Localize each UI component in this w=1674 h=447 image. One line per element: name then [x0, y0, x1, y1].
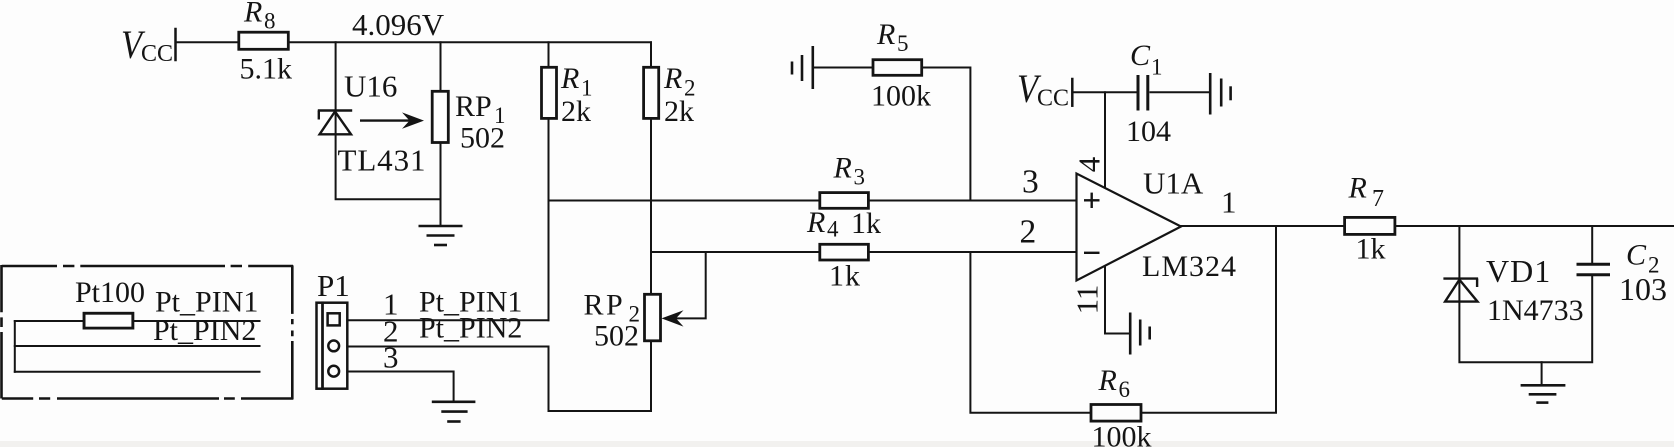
svg-text:R: R [663, 62, 682, 95]
svg-text:1k: 1k [1356, 233, 1386, 266]
svg-text:5: 5 [897, 31, 909, 56]
svg-text:1k: 1k [851, 207, 881, 240]
svg-text:100k: 100k [871, 80, 931, 113]
svg-text:LM324: LM324 [1142, 250, 1237, 283]
svg-text:R: R [1098, 364, 1117, 397]
svg-text:R: R [876, 18, 895, 51]
svg-text:4: 4 [1072, 156, 1107, 172]
svg-text:11: 11 [1070, 285, 1105, 315]
svg-text:CC: CC [141, 41, 173, 67]
svg-text:4.096V: 4.096V [352, 7, 445, 42]
svg-text:R: R [806, 206, 825, 239]
svg-text:RP: RP [584, 289, 626, 322]
svg-text:R: R [1348, 172, 1367, 205]
svg-text:U1A: U1A [1143, 166, 1204, 201]
svg-text:1: 1 [1151, 55, 1163, 80]
svg-text:5.1k: 5.1k [240, 53, 293, 86]
svg-text:Pt100: Pt100 [75, 276, 145, 309]
svg-text:Pt_PIN2: Pt_PIN2 [419, 312, 522, 345]
svg-text:C: C [1626, 239, 1647, 272]
svg-text:1: 1 [1221, 185, 1237, 220]
svg-text:8: 8 [264, 9, 276, 34]
svg-text:TL431: TL431 [338, 143, 427, 178]
svg-text:3: 3 [1022, 164, 1039, 201]
svg-text:502: 502 [594, 320, 639, 353]
svg-text:2k: 2k [664, 95, 694, 128]
svg-text:104: 104 [1126, 115, 1171, 148]
svg-text:VD1: VD1 [1486, 253, 1551, 289]
svg-text:P1: P1 [317, 268, 350, 303]
svg-text:2: 2 [1020, 214, 1037, 251]
svg-text:502: 502 [460, 122, 505, 155]
svg-text:R: R [243, 0, 262, 29]
svg-text:RP: RP [455, 90, 492, 123]
svg-text:3: 3 [383, 340, 399, 375]
svg-text:R: R [833, 152, 852, 185]
svg-text:R: R [560, 62, 579, 95]
svg-text:U16: U16 [344, 69, 397, 104]
svg-text:1k: 1k [829, 260, 861, 293]
svg-text:Pt_PIN2: Pt_PIN2 [153, 314, 256, 347]
svg-text:2k: 2k [561, 95, 591, 128]
svg-text:CC: CC [1037, 86, 1069, 112]
svg-text:7: 7 [1372, 186, 1384, 212]
svg-text:C: C [1130, 39, 1151, 72]
svg-text:103: 103 [1619, 271, 1667, 307]
svg-text:4: 4 [827, 217, 839, 242]
svg-text:6: 6 [1119, 377, 1131, 402]
svg-text:100k: 100k [1092, 421, 1152, 447]
svg-text:3: 3 [854, 165, 866, 190]
svg-text:1N4733: 1N4733 [1487, 294, 1584, 327]
